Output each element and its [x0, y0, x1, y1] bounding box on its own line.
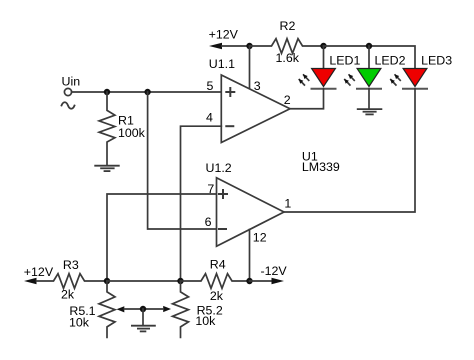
ground at wiper [132, 326, 155, 332]
svg-text:2k: 2k [210, 289, 224, 303]
power +12V symbol (bottom) [24, 278, 37, 284]
wire LED2 anode stem [368, 46, 370, 69]
resistor R1 [99, 92, 115, 166]
resistor R2 [250, 39, 324, 54]
svg-text:6: 6 [205, 215, 212, 229]
wire U1.2 pin 6 to Uin node [148, 92, 217, 229]
power +12V symbol (top) [209, 43, 222, 49]
svg-text:1.6k: 1.6k [276, 51, 300, 65]
junction C (R4 / U1.2 pin 12 / -12V) [246, 278, 252, 284]
LED LED1 (red) [299, 69, 336, 89]
op-amp U1.2 [217, 178, 285, 247]
LED LED2 (green) [344, 69, 381, 89]
wiper arrow into R5.2 [163, 306, 171, 312]
svg-text:2: 2 [284, 93, 291, 107]
wire top rail to LED3 [324, 46, 416, 69]
resistor R4 [181, 274, 250, 289]
power -12V symbol [250, 280, 272, 282]
wire wiper junction to ground [142, 309, 144, 326]
svg-text:5: 5 [207, 79, 214, 93]
svg-text:LED3: LED3 [421, 54, 452, 68]
svg-text:R3: R3 [63, 258, 79, 272]
svg-text:100k: 100k [118, 126, 146, 140]
wire U1.2 pin 7 to junction A [107, 194, 217, 281]
wire U1.1 pin 3 to +12V rail [249, 46, 251, 89]
wire U1.2 output to LED3 cathode [284, 89, 415, 212]
svg-text:LM339: LM339 [302, 160, 340, 174]
svg-text:U1.1: U1.1 [209, 57, 235, 71]
wire U1.2 pin 12 to -12V rail [249, 230, 251, 282]
svg-text:10k: 10k [69, 316, 90, 330]
svg-text:+12V: +12V [209, 27, 239, 41]
junction B (R5.2 / R4 / U1.1 pin 4) [177, 278, 183, 284]
svg-text:Uin: Uin [62, 75, 81, 89]
wire Uin to U1.1 pin 5 [72, 91, 222, 93]
svg-text:10k: 10k [195, 314, 216, 328]
wire U1.1 pin 4 to junction B [181, 126, 222, 281]
wire LED1 anode stem [323, 46, 325, 69]
svg-text:-12V: -12V [261, 264, 288, 278]
potentiometer R5.1 [99, 281, 115, 337]
svg-text:1: 1 [284, 197, 291, 211]
ground under R1 [95, 166, 119, 171]
svg-text:LED1: LED1 [329, 54, 360, 68]
junction A (R3 / R5.1 / U1.2 pin 7) [104, 278, 110, 284]
wire LED2 cathode to ground [368, 89, 370, 109]
resistor R3 [37, 274, 108, 289]
wire U1.1 output to LED1 cathode [290, 89, 324, 109]
AC tilde mark [62, 102, 75, 108]
ground under LED2 [358, 109, 382, 114]
svg-text:U1.2: U1.2 [206, 161, 232, 175]
op-amp U1.1 [221, 75, 290, 143]
junction Uin / U1.2 pin 6 branch [144, 89, 150, 95]
junction LED2 anode tap [366, 43, 372, 49]
potentiometer R5.2 [173, 281, 189, 337]
junction Uin / R1 [104, 89, 110, 95]
junction R2 / LED1 anode [320, 43, 326, 49]
svg-text:12: 12 [253, 230, 267, 244]
svg-text:4: 4 [206, 111, 213, 125]
svg-text:R2: R2 [280, 19, 296, 33]
junction +12V rail / U1.1 pin 3 [246, 43, 252, 49]
wiper arrow into R5.1 [117, 306, 125, 312]
svg-text:R4: R4 [210, 257, 226, 271]
svg-text:LED2: LED2 [375, 54, 406, 68]
svg-text:2k: 2k [61, 288, 75, 302]
svg-text:+12V: +12V [24, 265, 54, 279]
wire junction A to junction B [107, 280, 181, 282]
node Uin terminal [64, 88, 71, 95]
LED LED3 (red) [390, 69, 427, 89]
junction wiper / ground [140, 306, 146, 312]
